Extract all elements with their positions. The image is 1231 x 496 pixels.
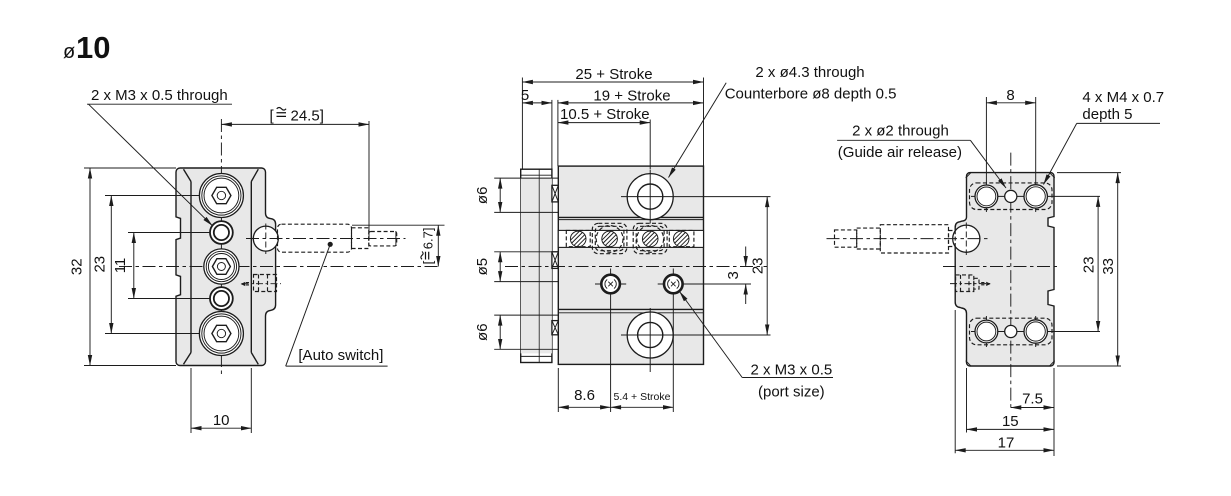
svg-text:15: 15 [1002, 413, 1019, 430]
hole row centerline y=333.5 [105, 333, 244, 335]
svg-text:ø6: ø6 [474, 323, 491, 341]
svg-text:11: 11 [112, 258, 129, 274]
counterbore hole bottom (hex socket) [199, 312, 243, 356]
dim 23 middle view [750, 197, 768, 335]
main vertical centerline right view [1010, 153, 1012, 411]
dim 32 left [69, 168, 177, 366]
svg-text:10.5 + Stroke: 10.5 + Stroke [560, 106, 650, 123]
svg-text:32: 32 [69, 258, 86, 275]
dim ø6 top left middle [474, 178, 500, 212]
dim 23 left [91, 196, 111, 334]
body outline right view [955, 173, 1054, 366]
svg-text:[: [ [421, 260, 436, 264]
dim 23 right view [1080, 196, 1098, 331]
svg-text:6.7]: 6.7] [421, 228, 436, 250]
dim 6.7 right of auto switch [352, 225, 445, 266]
body middle view [558, 166, 703, 364]
svg-text:23: 23 [91, 256, 108, 273]
belt block dashed with screw 3 [633, 223, 667, 253]
dim 15 bottom right view [967, 368, 1055, 433]
top counterbore circle middle view [621, 170, 771, 224]
svg-text:23: 23 [750, 257, 767, 274]
adjuster dashed right view [950, 275, 991, 292]
svg-text:25 + Stroke: 25 + Stroke [575, 66, 652, 83]
svg-text:19 + Stroke: 19 + Stroke [593, 87, 670, 104]
flange plate middle view [521, 169, 552, 362]
dim ø5 middle left middle [474, 252, 517, 282]
dim 33 right view [1057, 173, 1121, 366]
svg-text:ø: ø [63, 41, 75, 63]
port M3 left [595, 269, 626, 413]
body outline left view [176, 168, 276, 366]
dim 24.5 top left view [221, 108, 369, 241]
top holes row right view [970, 97, 1101, 212]
dim 17 bottom right view [955, 310, 1054, 453]
counterbore hole top (hex socket) [199, 174, 243, 218]
inner face lines left view [190, 182, 192, 353]
svg-text:33: 33 [1100, 258, 1117, 275]
belt block dashed with screw 2 [592, 223, 627, 253]
dim ø6 bottom left middle [474, 315, 500, 349]
svg-text:(port size): (port size) [758, 383, 825, 400]
label 4 x M4 x 0.7 depth 5 [1044, 89, 1165, 185]
svg-text:5.4 + Stroke: 5.4 + Stroke [614, 391, 671, 403]
bottom counterbore circle middle view [621, 308, 771, 372]
svg-text:(Guide air release): (Guide air release) [838, 144, 962, 161]
belt screw 4 hatched [669, 230, 694, 246]
svg-text:24.5]: 24.5] [291, 108, 324, 125]
svg-text:4 x M4 x 0.7: 4 x M4 x 0.7 [1082, 89, 1164, 106]
dim 5 flange [521, 87, 552, 169]
main horizontal centerline middle view [505, 266, 767, 268]
main horizontal centerline right view [943, 266, 1058, 268]
dim 10.5 + Stroke [558, 106, 650, 169]
bottom holes row right view [970, 316, 1101, 347]
label 2 x M3 x 0.5 through [87, 87, 232, 226]
svg-text:2 x ø2 through: 2 x ø2 through [852, 122, 949, 139]
svg-text:2 x M3 x 0.5: 2 x M3 x 0.5 [751, 361, 833, 378]
title bore size ø10 [63, 30, 110, 65]
M3 through hole lower [210, 287, 233, 310]
svg-text:8: 8 [1006, 87, 1014, 104]
svg-text:2 x ø4.3 through: 2 x ø4.3 through [755, 64, 864, 81]
svg-text:ø5: ø5 [474, 258, 491, 276]
label 2 x ø4.3 counterbore [669, 64, 897, 178]
corner chamfer lines right view [966, 172, 972, 178]
svg-text:depth 5: depth 5 [1082, 106, 1132, 123]
rod boss circle left view [253, 226, 278, 251]
dim 5.4 + Stroke bottom [611, 391, 674, 407]
svg-text:10: 10 [76, 30, 110, 65]
dim 8 top right view [986, 87, 1035, 104]
belt screw 1 hatched [566, 230, 590, 246]
seal box 1 [552, 185, 558, 202]
table band lines middle view [558, 216, 703, 218]
label 2 x M3 port size [680, 292, 834, 401]
svg-text:[Auto switch]: [Auto switch] [298, 347, 383, 364]
M3 through hole upper [210, 221, 233, 244]
svg-text:7.5: 7.5 [1022, 390, 1043, 407]
svg-text:8.6: 8.6 [574, 387, 595, 404]
rod boss circle right view [953, 225, 980, 252]
svg-text:3: 3 [725, 271, 742, 279]
svg-text:5: 5 [521, 87, 529, 104]
hole row centerline y=298.5 [128, 298, 233, 300]
dim 3 right of ports [687, 247, 751, 305]
svg-text:23: 23 [1080, 256, 1097, 273]
dim 11 left [112, 233, 134, 299]
dim 7.5 bottom right view [1011, 368, 1054, 456]
auto switch dashed body [246, 224, 406, 255]
center hex socket hole [204, 249, 239, 284]
label 2 x ø2 through guide air release [837, 122, 1006, 188]
dim 25 + Stroke [522, 66, 703, 169]
dim 19 + Stroke [558, 87, 704, 166]
svg-text:17: 17 [998, 435, 1015, 452]
vertical centerline left view [220, 119, 222, 378]
svg-text:Counterbore ø8 depth 0.5: Counterbore ø8 depth 0.5 [725, 85, 897, 102]
label Auto switch [286, 242, 388, 366]
svg-text:10: 10 [213, 412, 230, 429]
hole row centerline y=232.5 [128, 232, 233, 234]
svg-text:ø6: ø6 [474, 187, 491, 205]
dim 8.6 bottom [558, 368, 610, 412]
adjuster dashed left view [241, 275, 281, 292]
piston rod dashed right view [827, 225, 991, 253]
svg-text:2 x M3 x 0.5 through: 2 x M3 x 0.5 through [91, 87, 228, 104]
seal box 2 [552, 252, 558, 269]
main horizontal centerline y=266.5 [119, 266, 441, 268]
dim 10 bottom left view [191, 368, 251, 433]
rod silhouette lines through flange [494, 177, 558, 179]
hole row centerline y=195.5 [105, 195, 244, 197]
seal box 3 [552, 321, 558, 335]
port M3 right [658, 269, 689, 413]
